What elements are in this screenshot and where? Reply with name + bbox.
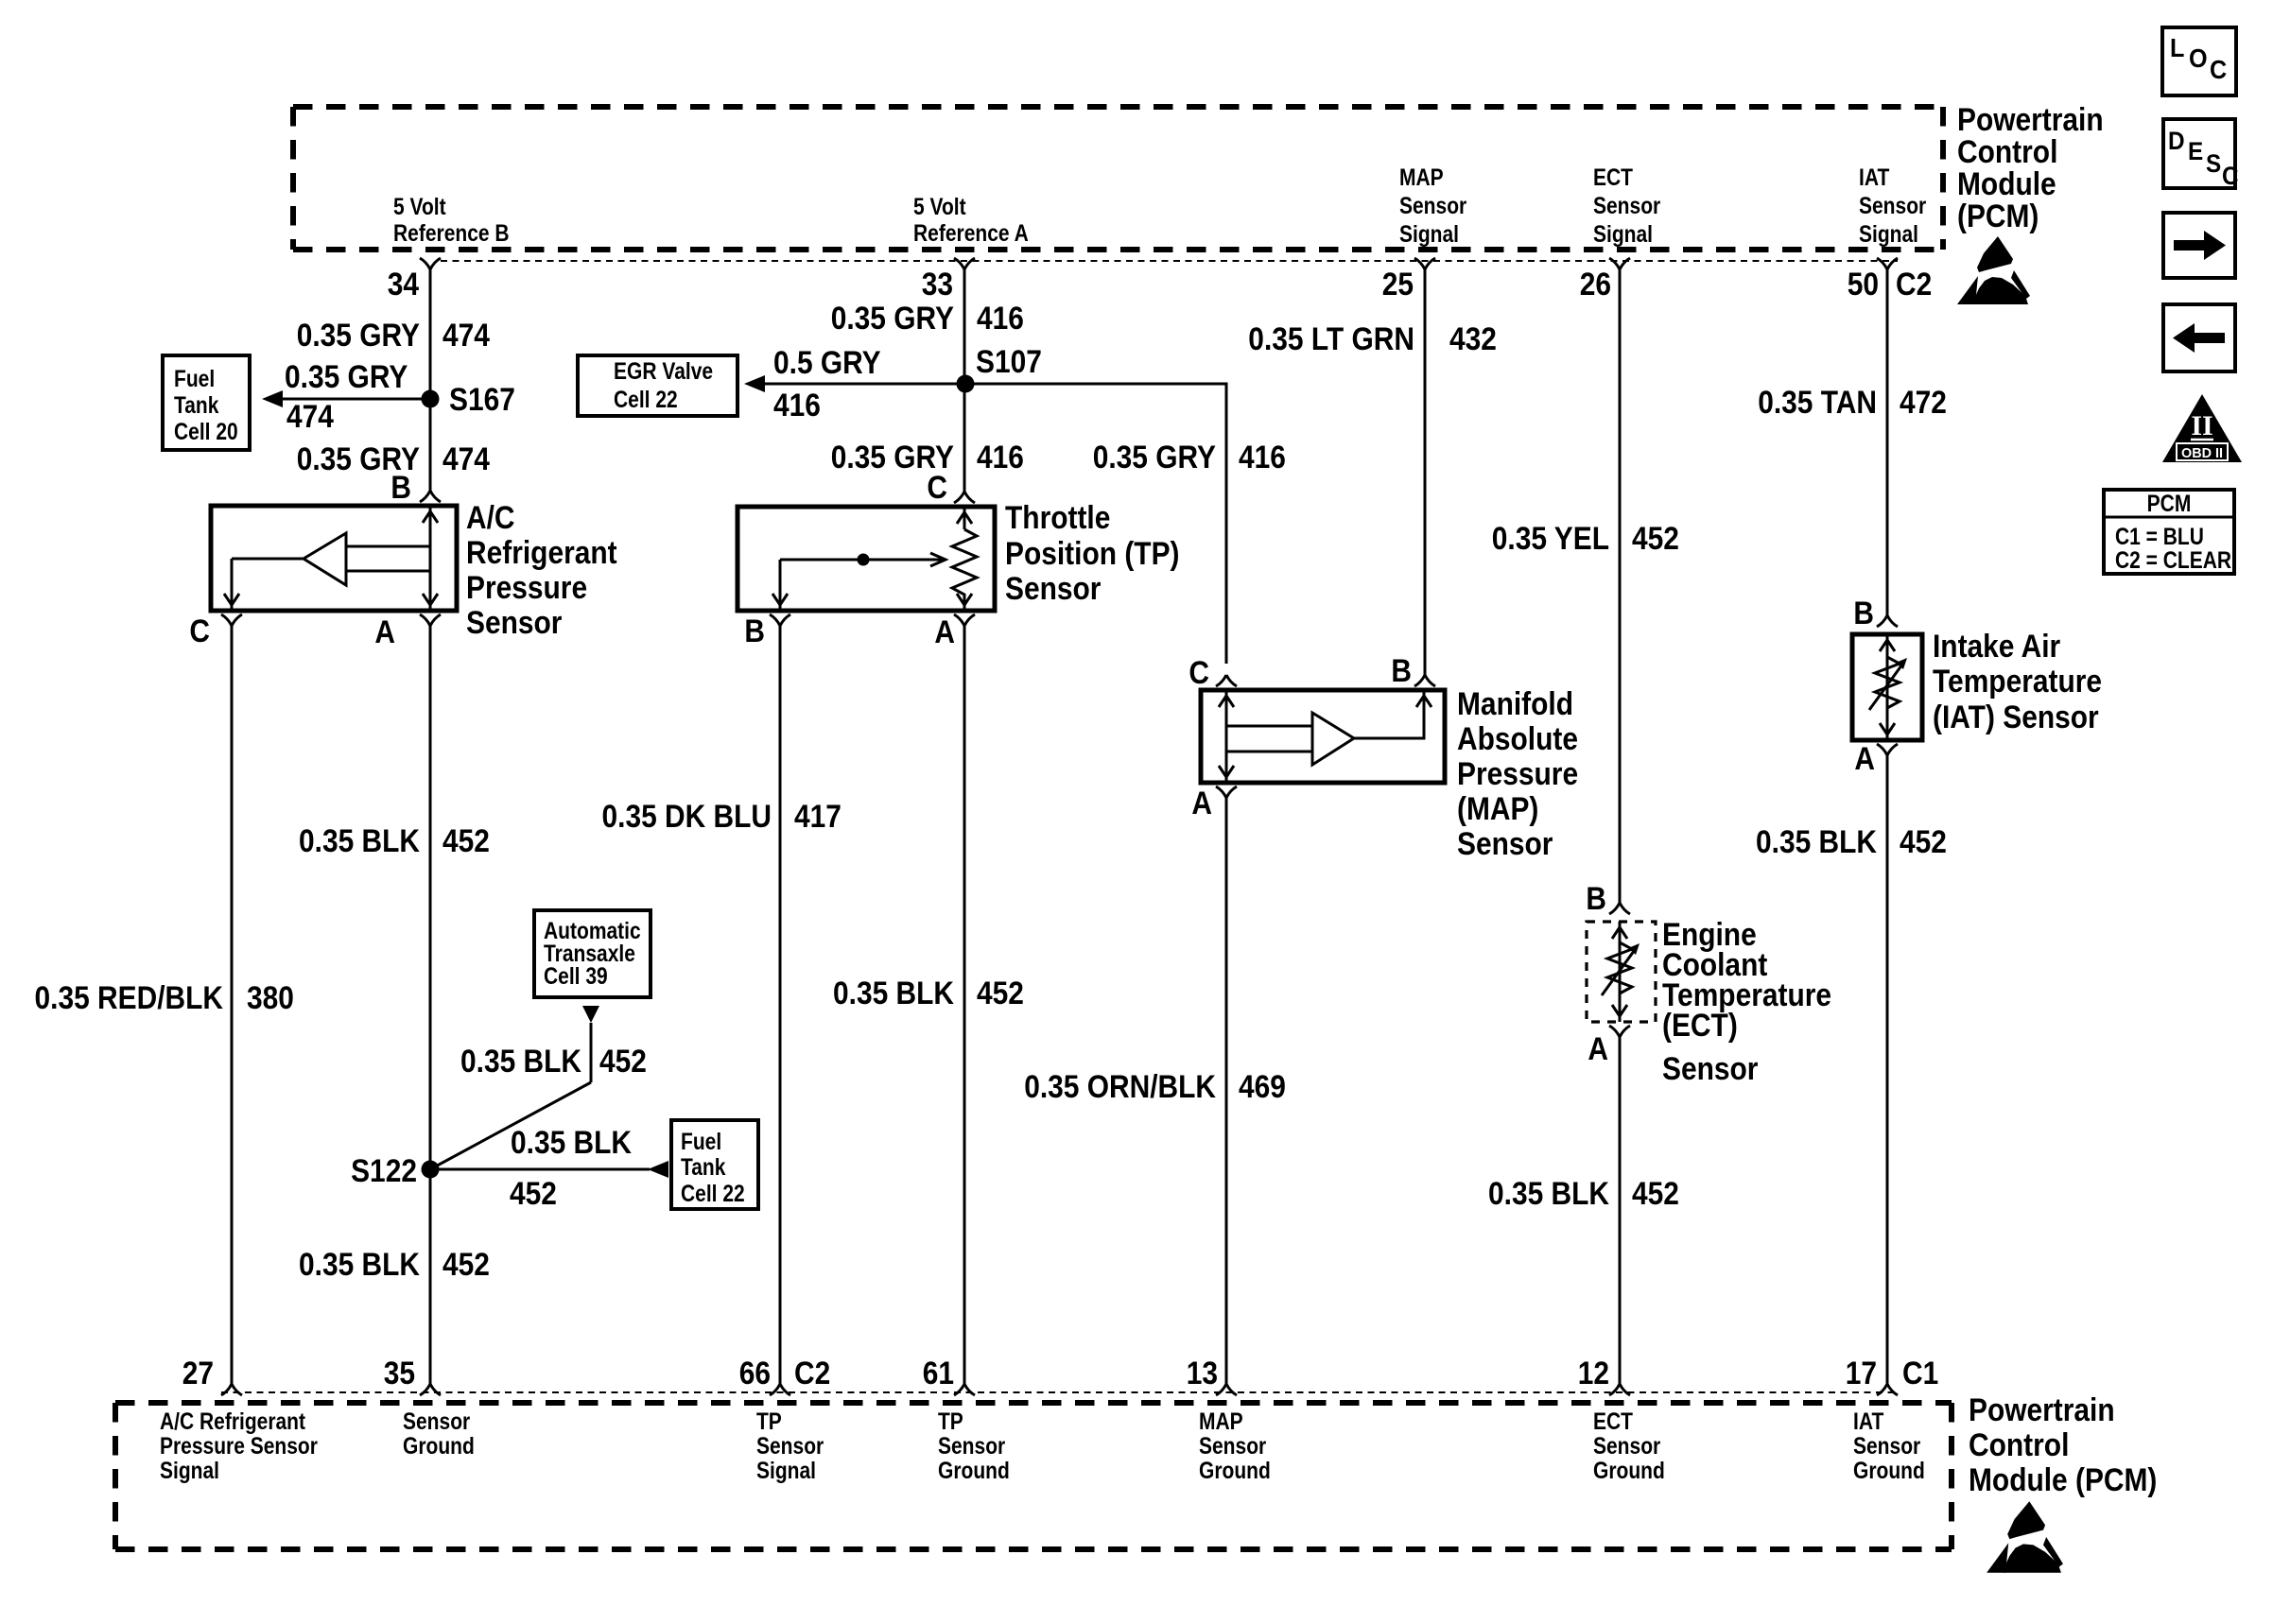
icon DESC box [2163, 119, 2239, 190]
svg-text:474: 474 [442, 318, 490, 354]
svg-text:C: C [189, 613, 210, 649]
icon right-arrow box [2163, 213, 2235, 278]
splice S122 [351, 1153, 439, 1189]
svg-text:474: 474 [442, 441, 490, 477]
svg-text:(IAT) Sensor: (IAT) Sensor [1933, 700, 2099, 735]
wire label 0.35 GRY 474 (474 lower) [297, 441, 490, 477]
svg-text:Manifold: Manifold [1457, 686, 1573, 722]
icon OBD II triangle [2162, 394, 2242, 462]
wire 452 (pin 26 to ECT pin B) [1619, 269, 1622, 903]
svg-text:II: II [2191, 410, 2212, 441]
svg-text:(ECT): (ECT) [1662, 1008, 1738, 1044]
connector pin 17 (bottom) [1846, 1356, 1939, 1395]
svg-text:0.35 LT GRN: 0.35 LT GRN [1248, 321, 1414, 357]
svg-text:Powertrain: Powertrain [1969, 1392, 2115, 1428]
pin B of MAP sensor [1391, 653, 1435, 689]
svg-text:27: 27 [182, 1356, 214, 1391]
svg-text:Cell 22: Cell 22 [614, 387, 678, 413]
wire label 0.35 YEL 452 (452 ect) [1492, 521, 1679, 557]
svg-text:Signal: Signal [1399, 221, 1459, 248]
svg-text:26: 26 [1580, 267, 1611, 302]
svg-text:0.35 BLK: 0.35 BLK [460, 1044, 581, 1080]
svg-text:C: C [1189, 655, 1209, 691]
svg-text:(MAP): (MAP) [1457, 791, 1538, 827]
svg-text:PCM: PCM [2147, 491, 2192, 517]
svg-text:Sensor: Sensor [1199, 1433, 1266, 1460]
A/C Refrigerant Pressure Sensor box [211, 506, 457, 611]
label Engine Coolant Temperature (ECT) Sensor [1662, 917, 1831, 1087]
svg-text:Sensor: Sensor [403, 1408, 470, 1435]
svg-text:Sensor: Sensor [938, 1433, 1005, 1460]
net A/C Refrigerant Pressure Sensor Signal [160, 1408, 318, 1484]
svg-text:Throttle: Throttle [1005, 500, 1110, 536]
svg-text:0.35 YEL: 0.35 YEL [1492, 521, 1609, 557]
svg-text:C: C [2210, 55, 2227, 84]
svg-text:Sensor: Sensor [756, 1433, 824, 1460]
wire label 0.35 TAN 472 (472) [1758, 385, 1947, 421]
pin C of TP sensor [927, 470, 975, 506]
connector pin 33 (top) [922, 258, 975, 302]
svg-text:O: O [2189, 43, 2208, 73]
svg-text:0.35 TAN: 0.35 TAN [1758, 385, 1877, 421]
label 0.5 GRY 416 (EGR branch) [773, 345, 881, 423]
svg-text:0.35 GRY: 0.35 GRY [285, 359, 408, 395]
wire 452 (IAT pin A to pin 17) [1886, 755, 1889, 1384]
splice S167 [422, 382, 515, 418]
net ECT Sensor Ground [1593, 1408, 1665, 1484]
ESD sensitive device symbol (bottom) [1987, 1501, 2063, 1573]
svg-text:Temperature: Temperature [1933, 664, 2102, 700]
connector pin 66 (bottom) [739, 1356, 831, 1395]
svg-text:0.35 DK BLU: 0.35 DK BLU [602, 799, 772, 835]
svg-text:416: 416 [773, 388, 821, 423]
svg-text:0.35 GRY: 0.35 GRY [831, 301, 955, 337]
svg-text:IAT: IAT [1853, 1408, 1883, 1435]
svg-text:61: 61 [923, 1356, 954, 1391]
svg-text:C1 = BLU: C1 = BLU [2115, 524, 2204, 550]
PCM bottom connector face (thin dashed) [221, 1391, 1898, 1393]
net MAP Sensor Ground [1199, 1408, 1271, 1484]
connector pin 25 (top) [1382, 258, 1435, 302]
svg-text:0.35 BLK: 0.35 BLK [833, 976, 954, 1011]
pin A of MAP sensor [1191, 786, 1237, 821]
svg-text:C: C [927, 470, 947, 506]
A/C sensor internal wiring and amplifier [224, 506, 438, 611]
label Intake Air Temperature (IAT) Sensor [1933, 629, 2102, 735]
wire label 0.35 GRY 416 (416 lower) [831, 440, 1024, 475]
svg-text:Ground: Ground [403, 1433, 475, 1460]
svg-text:0.35 BLK: 0.35 BLK [1488, 1176, 1609, 1212]
net IAT Sensor Ground [1853, 1408, 1925, 1484]
net IAT Sensor Signal [1859, 164, 1926, 248]
connector pin 12 (bottom) [1578, 1356, 1630, 1395]
svg-text:33: 33 [922, 267, 953, 302]
svg-text:Sensor: Sensor [1399, 193, 1466, 219]
svg-text:Tank: Tank [174, 392, 218, 419]
PCM top connector face C2 (thin dashed) [441, 260, 1898, 262]
svg-text:Ground: Ground [1593, 1458, 1665, 1484]
svg-text:A/C Refrigerant: A/C Refrigerant [160, 1408, 306, 1435]
pin B of ECT sensor [1586, 881, 1630, 917]
wire 474 (pin 34 to S167 to A/C pin B) [429, 269, 432, 491]
wire label 0.35 GRY 416 (416 upper) [831, 301, 1024, 337]
wire 474 branch to Fuel Tank Cell 20 [262, 390, 430, 407]
wire label 0.35 GRY 416 (416 branch) [1093, 440, 1286, 475]
svg-text:Pressure: Pressure [1457, 756, 1578, 792]
svg-text:A: A [1588, 1031, 1608, 1067]
wire 432 (pin 25 to MAP pin B) [1424, 269, 1427, 675]
svg-text:Reference A: Reference A [913, 220, 1029, 247]
svg-text:B: B [1391, 653, 1412, 689]
ECT sensor internal thermistor [1602, 922, 1640, 1022]
svg-text:Cell 20: Cell 20 [174, 419, 238, 445]
net TP Sensor Signal [756, 1408, 824, 1484]
svg-text:C: C [2222, 162, 2239, 190]
svg-text:E: E [2188, 137, 2203, 165]
reference box Automatic Transaxle Cell 39 [534, 910, 651, 997]
label 0.35 BLK 452 (transaxle branch) [460, 1044, 647, 1080]
label Powertrain Control Module (PCM) bottom [1969, 1392, 2157, 1498]
svg-text:A/C: A/C [466, 500, 515, 536]
svg-text:Sensor: Sensor [1853, 1433, 1920, 1460]
svg-text:A: A [1191, 786, 1212, 821]
svg-text:Ground: Ground [1199, 1458, 1271, 1484]
svg-text:Pressure Sensor: Pressure Sensor [160, 1433, 318, 1460]
svg-text:13: 13 [1187, 1356, 1218, 1391]
svg-text:452: 452 [977, 976, 1024, 1011]
svg-text:0.5 GRY: 0.5 GRY [773, 345, 881, 381]
svg-text:Module: Module [1957, 166, 2056, 202]
svg-text:Signal: Signal [1593, 221, 1653, 248]
svg-text:34: 34 [388, 267, 419, 302]
svg-text:B: B [1586, 881, 1606, 917]
svg-text:Fuel: Fuel [681, 1129, 721, 1155]
svg-text:0.35 BLK: 0.35 BLK [299, 823, 420, 859]
reference box Fuel Tank Cell 22 [671, 1120, 758, 1209]
net 5 Volt Reference A [913, 194, 1029, 247]
svg-text:416: 416 [1239, 440, 1286, 475]
wire 380 (A/C pin C to pin 27) [231, 626, 234, 1384]
svg-text:25: 25 [1382, 267, 1414, 302]
svg-text:OBD II: OBD II [2181, 445, 2223, 461]
net TP Sensor Ground [938, 1408, 1010, 1484]
wire 469 (MAP pin A to pin 13) [1225, 798, 1228, 1384]
svg-text:Control: Control [1969, 1427, 2069, 1463]
svg-text:C2 = CLEAR: C2 = CLEAR [2115, 547, 2231, 574]
svg-text:0.35 BLK: 0.35 BLK [1756, 824, 1877, 860]
label 0.35 BLK 452 (fuel tank 22 branch) [510, 1125, 632, 1212]
svg-text:S167: S167 [449, 382, 515, 418]
wire 416 (pin 33 to S107 to TP pin C) [963, 269, 966, 492]
svg-text:Signal: Signal [1859, 221, 1918, 248]
svg-text:Signal: Signal [756, 1458, 816, 1484]
svg-text:Cell 22: Cell 22 [681, 1181, 745, 1207]
wire label 0.35 RED/BLK 380 (380) [35, 980, 294, 1016]
PCM connector legend box [2104, 490, 2234, 574]
svg-text:MAP: MAP [1399, 164, 1444, 191]
wire 452 branch to Automatic Transaxle [430, 1006, 599, 1169]
connector pin 13 (bottom) [1187, 1356, 1237, 1395]
wire label 0.35 GRY 474 (474 upper) [297, 318, 490, 354]
reference box EGR Valve Cell 22 [578, 355, 737, 416]
svg-text:L: L [2170, 33, 2184, 62]
ESD sensitive device symbol (top) [1957, 236, 2030, 304]
svg-text:B: B [390, 470, 411, 506]
svg-text:Sensor: Sensor [466, 605, 562, 641]
pin C of MAP sensor [1189, 655, 1237, 691]
svg-text:432: 432 [1449, 321, 1497, 357]
svg-text:416: 416 [977, 301, 1024, 337]
svg-text:EGR Valve: EGR Valve [614, 358, 713, 385]
svg-text:Sensor: Sensor [1662, 1051, 1758, 1087]
net ECT Sensor Signal [1593, 164, 1660, 248]
svg-text:Tank: Tank [681, 1154, 725, 1181]
wire label 0.35 BLK 452 (452 a) [299, 823, 490, 859]
svg-text:TP: TP [756, 1408, 782, 1435]
wire 452 (TP pin A to pin 61) [963, 626, 966, 1384]
svg-text:0.35 GRY: 0.35 GRY [1093, 440, 1217, 475]
wire label 0.35 BLK 452 (452 iat) [1756, 824, 1947, 860]
svg-text:ECT: ECT [1593, 1408, 1633, 1435]
svg-text:17: 17 [1846, 1356, 1877, 1391]
svg-text:Module (PCM): Module (PCM) [1969, 1462, 2157, 1498]
wire 472 (pin 50 to IAT pin B) [1886, 269, 1889, 615]
pin B of TP sensor [744, 613, 790, 649]
wire 452 (ECT pin A to pin 12) [1619, 1037, 1622, 1384]
label 0.35 GRY 474 (fuel tank branch) [285, 359, 408, 435]
svg-text:Sensor: Sensor [1593, 193, 1660, 219]
svg-text:C1: C1 [1902, 1356, 1938, 1391]
svg-text:MAP: MAP [1199, 1408, 1243, 1435]
wire 452 (A/C pin A to S122 to pin 35) [429, 626, 432, 1384]
net 5 Volt Reference B [393, 194, 510, 247]
connector pin 27 (bottom) [182, 1356, 242, 1395]
svg-text:Sensor: Sensor [1859, 193, 1926, 219]
Intake Air Temperature (IAT) Sensor box [1852, 634, 1922, 740]
svg-text:Sensor: Sensor [1457, 826, 1553, 862]
svg-text:Absolute: Absolute [1457, 721, 1578, 757]
wire label 0.35 LT GRN 432 (432) [1248, 321, 1497, 357]
label Manifold Absolute Pressure (MAP) Sensor [1457, 686, 1578, 862]
svg-text:417: 417 [794, 799, 842, 835]
svg-text:C2: C2 [1896, 267, 1932, 302]
svg-text:A: A [934, 614, 955, 650]
svg-text:S107: S107 [976, 344, 1042, 380]
pin A of ECT sensor [1588, 1026, 1630, 1067]
label A/C Refrigerant Pressure Sensor [466, 500, 617, 641]
Manifold Absolute Pressure (MAP) Sensor box [1201, 690, 1445, 783]
PCM top module box (dashed) [293, 107, 1943, 250]
svg-text:0.35 BLK: 0.35 BLK [511, 1125, 632, 1161]
pin A of IAT sensor [1854, 741, 1898, 777]
svg-text:380: 380 [247, 980, 294, 1016]
svg-text:12: 12 [1578, 1356, 1609, 1391]
wire 452 branch to Fuel Tank Cell 22 [430, 1161, 668, 1178]
svg-text:416: 416 [977, 440, 1024, 475]
svg-text:Position (TP): Position (TP) [1005, 536, 1180, 572]
wire 416 branch to EGR Valve [744, 375, 965, 392]
connector pin 35 (bottom) [384, 1356, 441, 1395]
wire label 0.35 BLK 452 (452 b) [299, 1247, 490, 1283]
label Throttle Position (TP) Sensor [1005, 500, 1180, 607]
svg-text:452: 452 [1632, 1176, 1679, 1212]
svg-text:Powertrain: Powertrain [1957, 102, 2104, 138]
svg-text:IAT: IAT [1859, 164, 1889, 191]
svg-text:Signal: Signal [160, 1458, 219, 1484]
svg-text:0.35 BLK: 0.35 BLK [299, 1247, 420, 1283]
svg-text:Fuel: Fuel [174, 366, 215, 392]
wire 417 (TP pin B to pin 66) [779, 626, 782, 1384]
svg-text:B: B [744, 613, 765, 649]
svg-text:452: 452 [442, 1247, 490, 1283]
reference box Fuel Tank Cell 20 [163, 355, 250, 450]
svg-text:452: 452 [510, 1176, 557, 1212]
svg-text:0.35 RED/BLK: 0.35 RED/BLK [35, 980, 224, 1016]
svg-text:B: B [1853, 596, 1874, 631]
splice S107 [957, 344, 1042, 393]
PCM bottom module box (dashed) [115, 1403, 1952, 1549]
svg-text:Cell 39: Cell 39 [544, 963, 608, 990]
connector pin 26 (top) [1580, 258, 1630, 302]
svg-text:35: 35 [384, 1356, 415, 1391]
svg-text:A: A [374, 614, 395, 650]
svg-text:A: A [1854, 741, 1875, 777]
svg-text:5 Volt: 5 Volt [393, 194, 446, 220]
pin A of TP sensor [934, 614, 975, 650]
svg-text:0.35 ORN/BLK: 0.35 ORN/BLK [1024, 1069, 1216, 1105]
pin B of A/C sensor [390, 470, 441, 506]
svg-text:0.35 GRY: 0.35 GRY [297, 318, 421, 354]
net Sensor Ground (pin 35) [403, 1408, 475, 1460]
svg-text:ECT: ECT [1593, 164, 1633, 191]
svg-text:Sensor: Sensor [1593, 1433, 1660, 1460]
svg-text:5 Volt: 5 Volt [913, 194, 966, 220]
svg-text:Intake Air: Intake Air [1933, 629, 2060, 665]
svg-text:C2: C2 [794, 1356, 830, 1391]
wire 416 branch S107 to MAP pin C [965, 384, 1226, 664]
Engine Coolant Temperature (ECT) Sensor box (dashed) [1587, 922, 1656, 1022]
net MAP Sensor Signal [1399, 164, 1466, 248]
svg-text:Sensor: Sensor [1005, 571, 1101, 607]
wire label 0.35 BLK 452 (452 ect low) [1488, 1176, 1679, 1212]
icon LOC box [2162, 27, 2236, 95]
MAP sensor internal amplifier [1219, 690, 1431, 783]
wire label 0.35 BLK 452 (452 tp) [833, 976, 1024, 1011]
wire label 0.35 DK BLU 417 (417) [602, 799, 842, 835]
pin C of A/C sensor [189, 613, 242, 649]
svg-text:S122: S122 [351, 1153, 417, 1189]
Throttle Position (TP) Sensor box [737, 507, 995, 611]
IAT sensor internal thermistor [1869, 634, 1907, 740]
svg-text:50: 50 [1848, 267, 1879, 302]
svg-text:Ground: Ground [938, 1458, 1010, 1484]
svg-text:452: 452 [599, 1044, 647, 1080]
svg-text:Control: Control [1957, 134, 2057, 170]
connector pin 34 (top) [388, 258, 441, 302]
svg-text:452: 452 [442, 823, 490, 859]
svg-text:Reference B: Reference B [393, 220, 510, 247]
svg-text:D: D [2168, 127, 2185, 155]
wire label 0.35 ORN/BLK 469 (469) [1024, 1069, 1286, 1105]
svg-text:66: 66 [739, 1356, 771, 1391]
svg-text:Pressure: Pressure [466, 570, 587, 606]
svg-text:S: S [2206, 149, 2221, 178]
connector pin 50 (top) [1848, 258, 1933, 302]
svg-text:TP: TP [938, 1408, 963, 1435]
connector pin 61 (bottom) [923, 1356, 975, 1395]
svg-text:Refrigerant: Refrigerant [466, 535, 617, 571]
svg-text:469: 469 [1239, 1069, 1286, 1105]
svg-text:452: 452 [1900, 824, 1947, 860]
label Powertrain Control Module (PCM) top [1957, 102, 2104, 234]
svg-text:474: 474 [286, 399, 334, 435]
svg-text:472: 472 [1900, 385, 1947, 421]
svg-text:452: 452 [1632, 521, 1679, 557]
svg-text:Ground: Ground [1853, 1458, 1925, 1484]
svg-text:(PCM): (PCM) [1957, 199, 2039, 234]
icon left-arrow box [2163, 304, 2235, 371]
pin A of A/C sensor [374, 614, 441, 650]
pin B of IAT sensor [1853, 596, 1898, 631]
TP sensor internal potentiometer [772, 507, 977, 611]
